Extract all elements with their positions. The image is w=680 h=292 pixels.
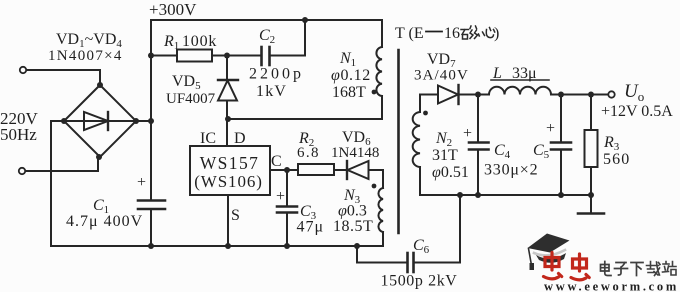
junction node C pin <box>284 167 290 173</box>
watermark sitechar1 电 <box>601 262 612 276</box>
svg-text:C: C <box>271 153 282 170</box>
junction node R1 right <box>224 53 230 59</box>
svg-text:+12V 0.5A: +12V 0.5A <box>601 103 673 120</box>
svg-text:UF4007: UF4007 <box>166 91 216 107</box>
svg-text:1N4148: 1N4148 <box>331 145 379 161</box>
+300V top rail <box>151 20 382 47</box>
svg-text:3A/40V: 3A/40V <box>414 68 469 84</box>
transformer aux N3 winding <box>378 188 383 232</box>
svg-text:1kV: 1kV <box>256 83 287 100</box>
svg-text:WS157: WS157 <box>200 153 260 173</box>
svg-text:(WS106): (WS106) <box>194 172 263 191</box>
junction node +300V at R1 <box>148 53 154 59</box>
junction node C5 top <box>558 92 564 98</box>
svg-text:2200p: 2200p <box>249 66 304 83</box>
svg-text:C6: C6 <box>413 237 430 256</box>
wire bridge right vertex to +300V node <box>136 120 151 122</box>
watermark chongchar2 虫 <box>571 254 589 280</box>
inductor L coil <box>489 87 551 95</box>
bottom rail <box>51 245 383 247</box>
polarity dot N1 <box>372 90 377 95</box>
svg-text:+: + <box>546 120 555 137</box>
junction node C5 bottom <box>558 192 564 198</box>
watermark cap band <box>534 250 565 255</box>
svg-text:VD5: VD5 <box>172 73 201 92</box>
wire +300V vertical main <box>150 20 152 200</box>
svg-text:S: S <box>231 207 240 224</box>
svg-text:φ0.51: φ0.51 <box>432 164 469 181</box>
svg-text:+: + <box>463 125 472 142</box>
junction node D <box>225 116 231 122</box>
junction node C1 bottom <box>148 243 154 249</box>
svg-text:6.8: 6.8 <box>297 145 320 161</box>
svg-text:18.5T: 18.5T <box>333 218 373 235</box>
diode VD7 <box>438 86 458 104</box>
capacitor C4 <box>477 95 479 143</box>
wire pin C node <box>270 169 298 171</box>
bridge inner diode <box>64 120 136 122</box>
junction node VD7 out <box>475 92 481 98</box>
watermark sitechar2 子 <box>615 263 628 276</box>
input terminal top <box>20 67 26 73</box>
core label cichar2 心 <box>483 28 495 38</box>
watermark sitechar3 下 <box>631 263 643 276</box>
capacitor C6 branch <box>357 246 407 263</box>
wire L to output <box>551 94 608 96</box>
svg-text:100k: 100k <box>182 33 217 50</box>
ground <box>590 195 592 213</box>
core label dash <box>426 31 442 33</box>
output terminal Uo <box>608 91 614 97</box>
svg-text:168T: 168T <box>332 84 366 101</box>
junction node C3 bottom <box>284 243 290 249</box>
junction node bridge bottom <box>96 154 102 160</box>
svg-text:T (E: T (E <box>395 25 424 42</box>
wire pin S to bottom rail <box>227 195 229 246</box>
svg-text:1500p 2kV: 1500p 2kV <box>381 273 458 290</box>
junction node C4 bottom <box>475 192 481 198</box>
svg-text:31T: 31T <box>432 147 458 164</box>
svg-text:+300V: +300V <box>149 0 197 19</box>
diode VD5 <box>226 56 228 81</box>
transformer core <box>397 50 400 233</box>
resistor R2 <box>298 164 334 175</box>
capacitor C1 <box>138 199 165 202</box>
svg-text:33μ: 33μ <box>512 65 537 82</box>
junction node bridge right <box>133 118 139 124</box>
capacitor C2 <box>227 55 261 57</box>
svg-text:16: 16 <box>444 25 460 42</box>
watermark graduation cap board <box>528 234 570 253</box>
svg-text:+: + <box>276 188 285 205</box>
svg-text:+: + <box>137 174 146 191</box>
junction node bridge top <box>97 82 103 88</box>
svg-text:4.7μ 400V: 4.7μ 400V <box>66 213 143 230</box>
junction node R3 top <box>588 92 594 98</box>
svg-text:50Hz: 50Hz <box>0 125 37 144</box>
svg-text:L: L <box>492 65 502 82</box>
label underline for L <box>491 79 549 81</box>
svg-text:C4: C4 <box>494 142 511 161</box>
svg-text:560: 560 <box>603 151 630 168</box>
bridge rectifier VD1-VD4 diamond <box>64 85 136 157</box>
wire D node to transformer N1 bottom <box>228 96 382 119</box>
watermark cap tassel <box>529 249 532 263</box>
svg-text:R1: R1 <box>163 33 179 52</box>
input terminal bottom <box>19 168 25 174</box>
junction node bridge left <box>61 118 67 124</box>
svg-text:330μ×2: 330μ×2 <box>484 162 538 179</box>
svg-text:www.eeworm.com: www.eeworm.com <box>544 280 679 292</box>
transformer primary N1 winding <box>376 47 382 96</box>
diode VD6 <box>346 161 348 179</box>
resistor R3 <box>590 95 592 131</box>
svg-text:C5: C5 <box>533 142 550 161</box>
capacitor C3 <box>286 170 288 206</box>
watermark sitechar5 站 <box>663 262 677 276</box>
watermark cap base <box>536 253 566 263</box>
core label cichar1 磁 <box>461 26 479 39</box>
IC U1 WS157 box <box>190 146 270 195</box>
resistor R1 <box>151 55 177 57</box>
junction node C6 right <box>457 192 463 198</box>
junction node C2 to rail <box>302 17 308 23</box>
junction node bridge to rail <box>148 118 154 124</box>
wire input bottom to bridge <box>26 158 99 171</box>
svg-text:D: D <box>234 130 246 147</box>
junction node S bottom <box>225 243 231 249</box>
svg-text:IC: IC <box>200 130 216 147</box>
transformer secondary N2 winding <box>413 112 420 167</box>
svg-text:φ0.3: φ0.3 <box>338 203 367 220</box>
polarity dot N2 <box>423 111 428 116</box>
watermark sitechar4 载 <box>647 262 661 276</box>
svg-text:C2: C2 <box>259 27 275 46</box>
svg-text:1N4007×4: 1N4007×4 <box>48 48 123 64</box>
junction node C6 left <box>354 243 360 249</box>
polarity dot N3 <box>372 184 377 189</box>
wire input top to bridge <box>27 70 101 85</box>
junction node ground <box>588 192 594 198</box>
wire bridge left vertex to bottom rail <box>51 121 64 246</box>
svg-text:Uo: Uo <box>624 81 644 104</box>
capacitor C5 <box>560 95 562 143</box>
svg-text:): ) <box>494 25 499 42</box>
svg-text:φ0.12: φ0.12 <box>331 67 371 84</box>
svg-text:47μ: 47μ <box>297 219 325 236</box>
watermark chongchar1 虫 <box>544 253 562 279</box>
